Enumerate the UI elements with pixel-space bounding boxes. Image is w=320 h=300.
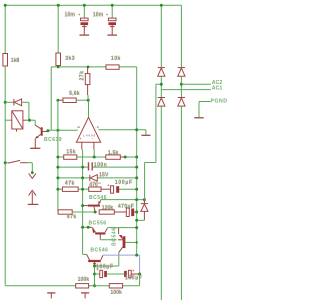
svg-text:3k3: 3k3 xyxy=(65,56,75,62)
svg-text:m: m xyxy=(98,181,101,185)
svg-text:27k: 27k xyxy=(80,71,86,81)
svg-text:BC639: BC639 xyxy=(44,137,62,143)
svg-text:15V: 15V xyxy=(99,173,109,179)
resistor R1 1k8 xyxy=(3,54,20,67)
wire collector row y199.6 xyxy=(101,200,145,202)
wire PGND xyxy=(199,102,210,118)
ground bottom mid xyxy=(81,293,89,299)
svg-text:1.5k: 1.5k xyxy=(108,151,119,157)
svg-text:AC1: AC1 xyxy=(212,85,223,91)
diode D7 bridge lower right xyxy=(178,98,185,300)
wire AC1 xyxy=(161,89,211,91)
svg-text:-B: -B xyxy=(95,125,99,129)
wire row y67 xyxy=(51,67,137,255)
resistor R5 5,6k xyxy=(58,91,88,102)
svg-text:BC556: BC556 xyxy=(89,220,107,226)
svg-text:47k: 47k xyxy=(65,181,75,187)
resistor R3 10k xyxy=(106,56,121,69)
wire emitter down xyxy=(94,266,96,286)
op-amp U1 xyxy=(76,100,100,149)
wire BC556 upper pin to rail row xyxy=(107,227,136,229)
diode D6 bridge lower left xyxy=(158,98,165,300)
resistor R11 120k xyxy=(99,206,126,215)
resistor R2 3k3 xyxy=(56,53,75,67)
svg-text:47k: 47k xyxy=(67,214,77,220)
resistor R4 27k vertical xyxy=(80,67,90,100)
svg-text:100k: 100k xyxy=(110,290,122,296)
svg-text:+: + xyxy=(80,137,82,141)
wire opamp inputs down xyxy=(83,150,95,255)
wire blue collector net xyxy=(103,255,140,274)
resistor R10 47k xyxy=(58,210,95,221)
diode D1 relay flyback xyxy=(5,99,29,120)
ground mid xyxy=(141,134,150,136)
resistor R12 100k xyxy=(76,277,90,288)
ground under Q1 xyxy=(30,139,40,149)
svg-text:100µF: 100µF xyxy=(96,264,113,270)
resistor R9 470 xyxy=(89,181,111,191)
diode D2 zener 15V xyxy=(58,173,137,182)
diode D5 bridge upper right xyxy=(178,68,185,85)
svg-text:100µF: 100µF xyxy=(115,180,133,186)
svg-text:+: + xyxy=(106,12,109,17)
svg-text:BC546: BC546 xyxy=(90,248,108,254)
connector arrow up xyxy=(28,190,39,204)
capacitor C7 100uF xyxy=(124,268,142,281)
svg-text:100k: 100k xyxy=(78,277,90,283)
svg-text:10m: 10m xyxy=(65,12,76,18)
svg-text:PGND: PGND xyxy=(211,99,228,105)
capacitor C5 470uF xyxy=(118,204,137,216)
ground under C2 xyxy=(107,27,117,35)
wire Q4 collector down xyxy=(95,252,119,266)
wire AC2 xyxy=(181,83,210,85)
connector arrow down xyxy=(29,171,36,178)
capacitor C4 100uF xyxy=(107,180,137,193)
transistor Q1 BC639 xyxy=(35,120,62,143)
diode D3 xyxy=(137,200,148,221)
svg-text:+: + xyxy=(107,182,110,187)
wire AC node jog xyxy=(145,84,182,199)
ground under C1 xyxy=(80,27,90,35)
svg-text:10m: 10m xyxy=(93,12,104,18)
svg-text:BC546: BC546 xyxy=(111,228,117,246)
capacitor C1 10m xyxy=(65,12,89,34)
svg-text:470µF: 470µF xyxy=(118,204,134,210)
svg-text:1k8: 1k8 xyxy=(11,58,20,64)
svg-text:10k: 10k xyxy=(111,56,121,62)
wire rail x58 xyxy=(57,100,59,211)
svg-text:100n: 100n xyxy=(94,163,107,169)
wire Q4 base row xyxy=(100,239,116,241)
transistor Q3 BC556 xyxy=(83,220,108,239)
capacitor C2 10m xyxy=(93,12,116,34)
transistor Q4 BC546 xyxy=(111,228,125,253)
switch S1 xyxy=(5,160,32,172)
wire left column xyxy=(4,66,6,286)
svg-text:470: 470 xyxy=(89,182,98,188)
capacitor C6 100uF xyxy=(95,264,125,277)
ground bottom left xyxy=(47,293,55,299)
wire bottom row xyxy=(5,274,139,286)
svg-text:+: + xyxy=(78,12,81,17)
diode D4 bridge upper left xyxy=(158,68,165,85)
transistor Q5 BC546 xyxy=(83,248,109,266)
svg-text:L4905: L4905 xyxy=(83,133,95,137)
svg-text:5,6k: 5,6k xyxy=(69,91,80,97)
ground PGND xyxy=(194,117,203,119)
svg-text:+: + xyxy=(132,268,135,273)
capacitor C3 100n xyxy=(58,162,137,170)
resistor R8 47k xyxy=(58,181,89,192)
wire top rail xyxy=(5,5,181,67)
svg-text:15k: 15k xyxy=(66,150,76,156)
wire Q4 base to rail xyxy=(125,241,136,243)
svg-text:−: − xyxy=(92,137,94,141)
node top rail junctions xyxy=(4,4,163,7)
resistor R6 15k xyxy=(58,150,106,160)
resistor R13 100k xyxy=(109,284,122,296)
resistor R7 1.5k xyxy=(106,151,137,160)
relay K1 coil xyxy=(5,111,35,132)
wire base row y130 xyxy=(48,130,146,135)
svg-text:+B: +B xyxy=(77,125,81,129)
transistor Q2 BC546 xyxy=(83,195,107,212)
svg-text:120k: 120k xyxy=(102,206,114,212)
